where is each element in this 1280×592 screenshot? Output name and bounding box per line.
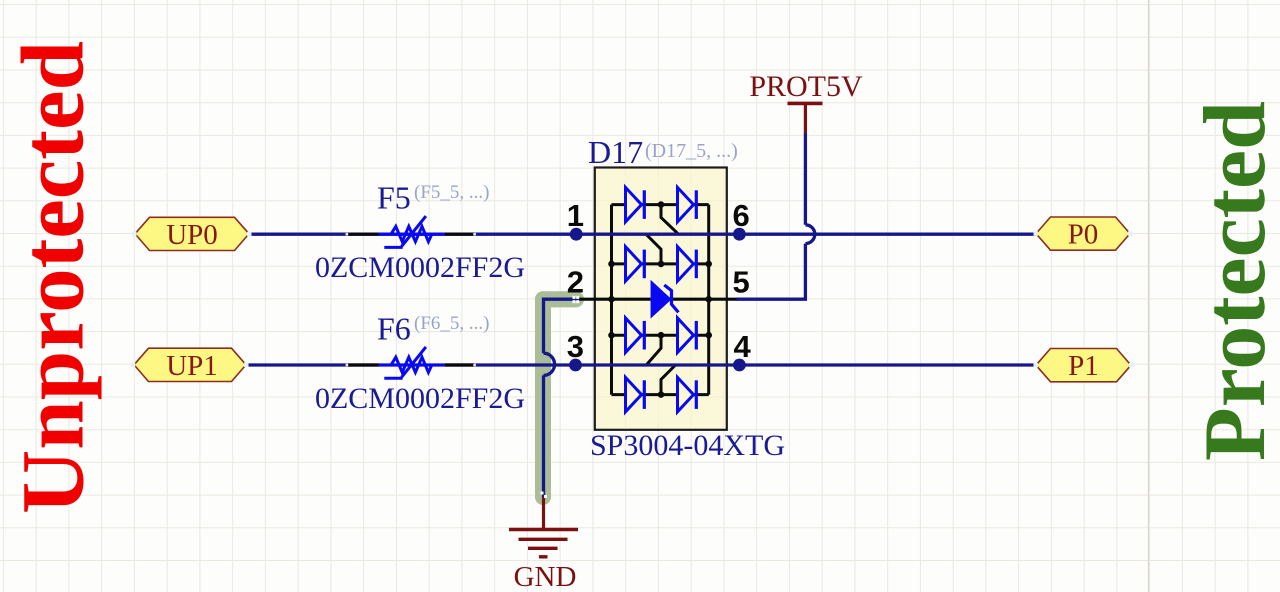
wire hop over UP1 net	[544, 353, 555, 375]
svg-text:6: 6	[733, 198, 750, 233]
wire pin2-pin5 internal line	[579, 298, 737, 301]
power PROT5V	[749, 70, 863, 134]
junction pin6	[733, 228, 746, 241]
svg-text:GND: GND	[514, 561, 577, 592]
svg-text:(D17_5, ...): (D17_5, ...)	[645, 140, 738, 162]
svg-text:P1: P1	[1068, 350, 1099, 382]
wire PROT5V vertical	[737, 133, 806, 299]
diode D17 row A right	[678, 187, 694, 221]
svg-text:3: 3	[567, 329, 584, 364]
D17 tap net1 to row B	[646, 234, 661, 264]
ground GND	[509, 497, 578, 592]
D17 row A line	[612, 203, 709, 206]
diode D17 row A left	[626, 187, 642, 221]
junction pin3	[569, 359, 582, 372]
svg-text:5: 5	[733, 264, 750, 299]
port P0	[1036, 217, 1130, 250]
component D17 body	[595, 168, 727, 430]
svg-text:4: 4	[734, 329, 752, 364]
diode D17 row C left	[626, 318, 642, 352]
fuse F6 symbol	[348, 363, 379, 366]
D17 internal left rail	[610, 205, 613, 395]
fuse F5 symbol	[348, 233, 379, 236]
D17 row C line	[612, 334, 709, 337]
D17 internal right rail	[707, 205, 710, 395]
D17 tap row C to net3	[646, 335, 661, 365]
wire hop over UP0 net	[805, 225, 814, 244]
svg-text:(F5_5, ...): (F5_5, ...)	[414, 182, 489, 203]
port UP1	[134, 348, 246, 381]
wire UP0 to P0 net	[249, 233, 1036, 236]
wire pin2 to GND	[544, 299, 579, 497]
svg-text:F5: F5	[377, 180, 411, 216]
svg-text:F6: F6	[377, 310, 411, 346]
svg-text:SP3004-04XTG: SP3004-04XTG	[590, 429, 785, 462]
junction pin4	[733, 359, 746, 372]
junction pin1	[570, 228, 583, 241]
svg-text:Protected: Protected	[1187, 101, 1280, 461]
selection highlight on GND wire	[535, 291, 584, 505]
svg-text:D17: D17	[588, 134, 643, 170]
D17 tap net3 to row D	[661, 365, 676, 395]
selection handles on GND wire	[541, 296, 580, 498]
svg-text:0ZCM0002FF2G: 0ZCM0002FF2G	[315, 382, 525, 415]
svg-text:P0: P0	[1068, 219, 1099, 251]
D17 internal junctions	[608, 201, 712, 398]
wire UP1 to P1 net	[246, 363, 1036, 366]
svg-text:1: 1	[567, 198, 584, 233]
diode D17 row D right	[678, 377, 694, 411]
port endpoint markers	[131, 231, 1134, 367]
diode D17 row B left	[626, 247, 642, 281]
svg-text:(F6_5, ...): (F6_5, ...)	[414, 313, 489, 334]
svg-text:UP0: UP0	[166, 219, 218, 251]
svg-text:2: 2	[567, 264, 584, 299]
TVS diode D17 center	[651, 282, 670, 317]
svg-text:PROT5V: PROT5V	[749, 70, 863, 103]
D17 row D line	[612, 393, 709, 396]
D17 row B line	[612, 262, 709, 265]
diode D17 row C right	[678, 318, 694, 352]
port P1	[1036, 349, 1131, 382]
D17 tap row A to net1	[661, 205, 679, 235]
fuse pin endpoint markers	[346, 233, 476, 366]
diode D17 row B right	[678, 247, 694, 281]
port UP0	[135, 217, 249, 250]
svg-text:UP1: UP1	[166, 350, 218, 382]
diode D17 row D left	[626, 377, 642, 411]
svg-text:0ZCM0002FF2G: 0ZCM0002FF2G	[315, 251, 525, 284]
svg-text:Unprotected: Unprotected	[5, 41, 103, 514]
